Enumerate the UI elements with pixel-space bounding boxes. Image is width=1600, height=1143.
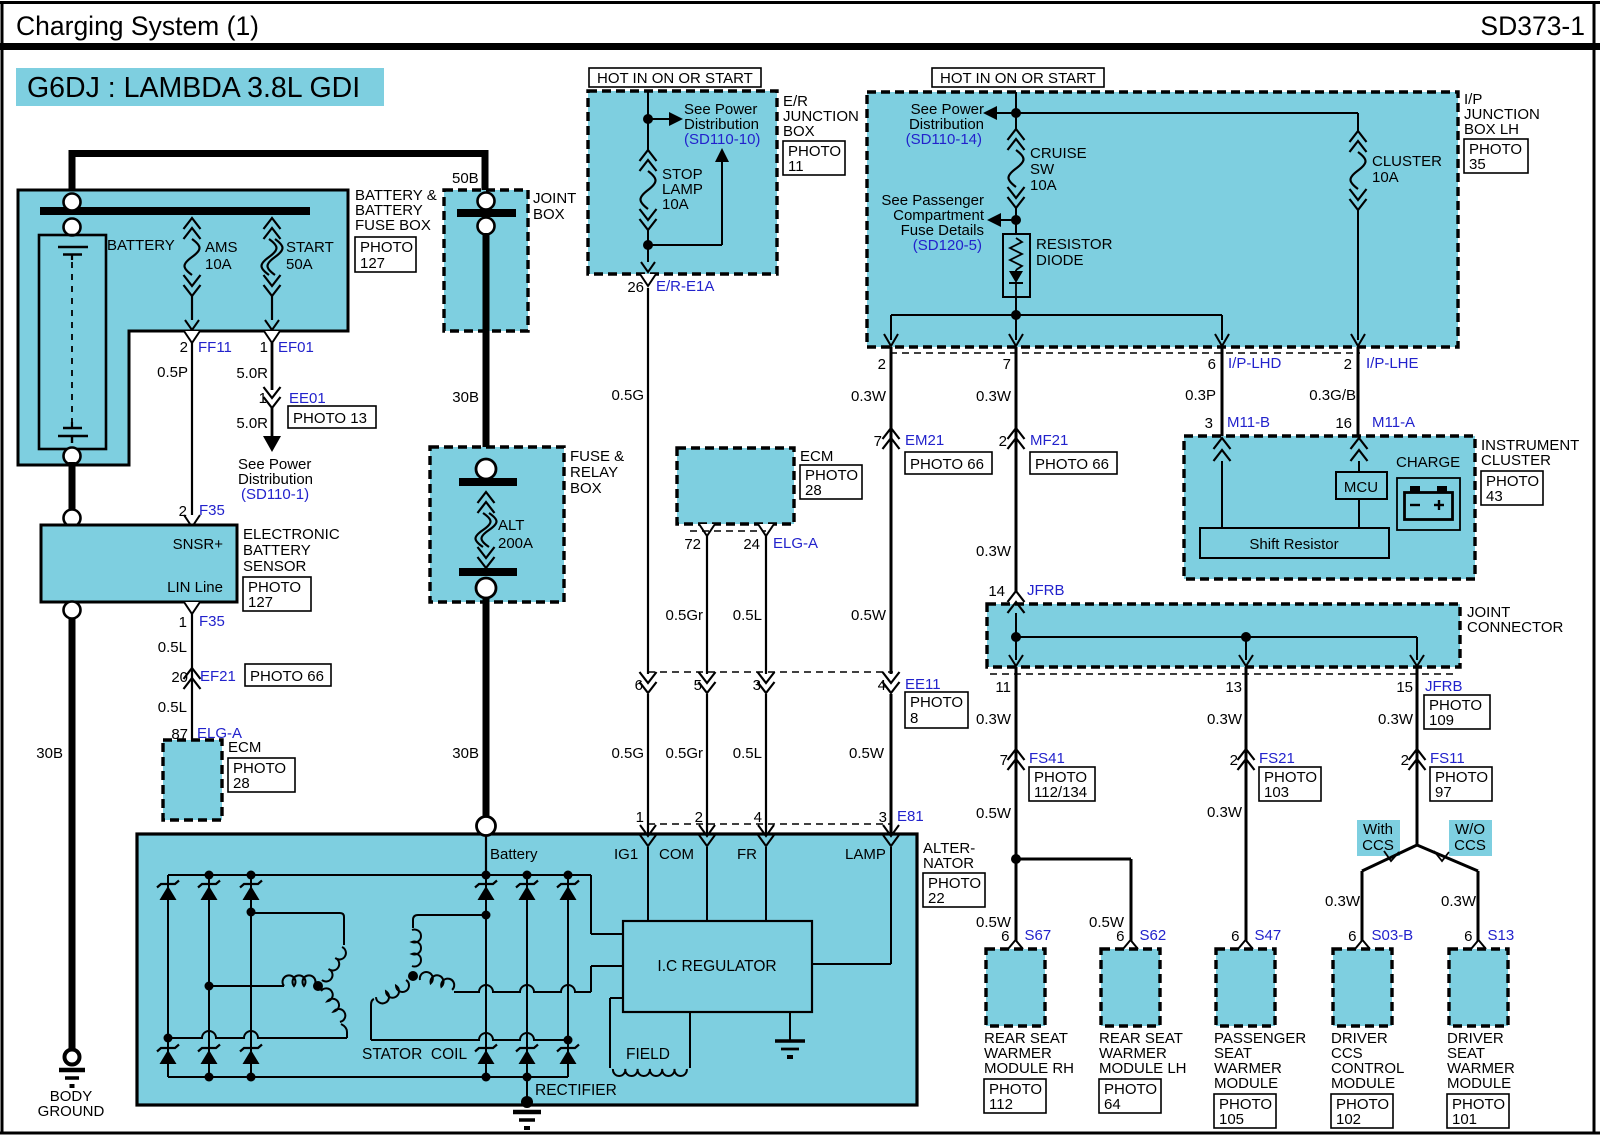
svg-text:S62: S62: [1140, 927, 1167, 944]
svg-text:105: 105: [1219, 1111, 1244, 1128]
module S62: [1101, 949, 1160, 1026]
svg-text:0.3W: 0.3W: [976, 543, 1012, 560]
svg-text:6: 6: [1231, 928, 1239, 945]
wire 0.5Gr: [706, 536, 708, 674]
svg-text:FS21: FS21: [1259, 750, 1295, 767]
svg-text:CCS: CCS: [1362, 837, 1394, 854]
svg-text:0.5Gr: 0.5Gr: [665, 745, 703, 762]
svg-text:64: 64: [1104, 1096, 1121, 1113]
wire 0.5G: [647, 288, 649, 674]
bus bar in battery fuse box: [40, 207, 310, 215]
svg-text:BATTERY: BATTERY: [243, 542, 311, 559]
fuse & relay box: [430, 447, 564, 602]
connector line E81: [648, 823, 891, 825]
svg-text:CCS: CCS: [1454, 837, 1486, 854]
svg-text:Shift Resistor: Shift Resistor: [1249, 536, 1338, 553]
connector pin 6 S62: [1123, 940, 1138, 949]
field coil: [610, 997, 623, 999]
svg-text:0.5L: 0.5L: [158, 699, 187, 716]
page border frame: [0, 1, 1600, 4]
svg-text:LAMP: LAMP: [845, 846, 886, 863]
svg-text:SENSOR: SENSOR: [243, 558, 307, 575]
in-line connector 2 FS21: [1238, 749, 1255, 760]
stator coil 2: [408, 971, 418, 981]
connector pin 14 JFRB: [1008, 591, 1025, 602]
svg-text:(SD110-1): (SD110-1): [241, 486, 309, 503]
svg-text:10A: 10A: [1372, 169, 1399, 186]
svg-text:PHOTO: PHOTO: [360, 239, 413, 256]
svg-text:30B: 30B: [452, 389, 479, 406]
IC regulator: [623, 921, 812, 1012]
option labels With CCS / W/O CCS: [1357, 820, 1400, 856]
in-line connector 7 FS41: [1008, 749, 1025, 760]
svg-text:6: 6: [1116, 928, 1124, 945]
photo ref 28: [228, 758, 295, 792]
svg-text:E81: E81: [897, 808, 924, 825]
svg-text:8: 8: [910, 710, 918, 727]
svg-text:1: 1: [636, 809, 644, 826]
wire battery pin to bus: [485, 835, 487, 875]
svg-text:MODULE: MODULE: [1447, 1075, 1511, 1092]
svg-text:6: 6: [635, 677, 643, 694]
photo ref 8: [905, 692, 968, 728]
svg-text:0.3W: 0.3W: [851, 388, 887, 405]
svg-text:0.3W: 0.3W: [1207, 804, 1243, 821]
svg-text:I/P-LHD: I/P-LHD: [1228, 355, 1282, 372]
svg-text:SD373-1: SD373-1: [1480, 11, 1585, 41]
svg-text:FF11: FF11: [198, 339, 232, 356]
in-line connector 1 EE01: [264, 387, 281, 398]
photo ref 103: [1259, 767, 1321, 801]
rectifier bottom bus: [168, 1076, 568, 1078]
svg-text:15: 15: [1396, 679, 1413, 696]
wire 0.5W to alternator lamp: [890, 694, 893, 836]
svg-text:START: START: [286, 239, 334, 256]
svg-text:EF01: EF01: [278, 339, 314, 356]
svg-text:STATOR COIL: STATOR COIL: [362, 1046, 467, 1063]
thick wire 30B joint box to fuse & relay box: [483, 233, 490, 462]
svg-text:JFRB: JFRB: [1425, 678, 1463, 695]
svg-text:102: 102: [1336, 1111, 1361, 1128]
battery & battery fuse box outline: [18, 190, 348, 465]
svg-text:ALT: ALT: [498, 517, 524, 534]
svg-text:11: 11: [995, 679, 1011, 696]
svg-text:4: 4: [878, 677, 886, 694]
photo ref 43: [1481, 471, 1543, 505]
connector pin 2 FF11: [184, 331, 200, 343]
connector pin 26 E/R-E1A: [641, 262, 655, 272]
fuse ALT 200A: [478, 492, 495, 503]
terminal ring: [64, 194, 81, 211]
connector pin 6 EE11: [640, 672, 657, 683]
wire 0.3P: [1221, 347, 1224, 440]
junction nodes right rectifier: [482, 911, 491, 920]
svg-text:200A: 200A: [498, 535, 533, 552]
svg-text:FUSE BOX: FUSE BOX: [355, 217, 431, 234]
svg-text:0.5W: 0.5W: [976, 805, 1012, 822]
wire 5.0R: [271, 343, 274, 390]
label HOT IN ON OR START: [932, 68, 1104, 87]
svg-text:43: 43: [1486, 488, 1503, 505]
svg-text:22: 22: [928, 890, 945, 907]
svg-text:26: 26: [627, 279, 644, 296]
MCU: [1336, 472, 1387, 499]
svg-text:3: 3: [1205, 415, 1213, 432]
svg-text:IG1: IG1: [614, 846, 638, 863]
wire 5.0R to power distribution: [271, 408, 274, 438]
photo ref 22: [923, 873, 985, 907]
svg-text:10A: 10A: [1030, 177, 1057, 194]
svg-text:0.3W: 0.3W: [976, 711, 1012, 728]
connector pin 6 S03-B: [1355, 940, 1370, 949]
svg-text:101: 101: [1452, 1111, 1477, 1128]
svg-text:7: 7: [1003, 356, 1011, 373]
fuse AMS 10A: [184, 218, 201, 229]
shift resistor: [1200, 528, 1389, 558]
svg-text:0.3W: 0.3W: [976, 388, 1012, 405]
svg-text:50A: 50A: [286, 256, 313, 273]
svg-text:(SD110-14): (SD110-14): [906, 131, 982, 148]
photo ref 66: [1030, 452, 1117, 474]
connector row EE11: [648, 671, 893, 673]
connector pin 4 EE11: [883, 672, 900, 683]
photo ref 112/134: [1029, 767, 1095, 801]
svg-text:CONNECTOR: CONNECTOR: [1467, 619, 1564, 636]
svg-text:BOX LH: BOX LH: [1464, 121, 1519, 138]
svg-text:COM: COM: [659, 846, 694, 863]
svg-text:S67: S67: [1025, 927, 1052, 944]
fuse STOP LAMP 10A: [640, 150, 657, 161]
svg-text:M11-B: M11-B: [1227, 414, 1270, 431]
connector pin 2 F35: [184, 515, 200, 527]
connector pin 16 M11-A: [1351, 438, 1368, 449]
svg-text:HOT IN ON OR START: HOT IN ON OR START: [940, 70, 1096, 87]
svg-text:5.0R: 5.0R: [236, 365, 268, 382]
svg-text:FR: FR: [737, 846, 757, 863]
joint box: [444, 190, 528, 331]
ECM (middle): [677, 448, 794, 524]
svg-text:112/134: 112/134: [1034, 784, 1087, 801]
svg-text:PHOTO 66: PHOTO 66: [250, 668, 324, 685]
connector pin 6 S47: [1238, 940, 1253, 949]
regulator input wires: [647, 847, 649, 921]
svg-text:0.3G/B: 0.3G/B: [1309, 387, 1356, 404]
svg-text:BOX: BOX: [570, 480, 602, 497]
in-line connector 2 FS11: [1409, 749, 1426, 760]
svg-text:ELECTRONIC: ELECTRONIC: [243, 526, 340, 543]
junction node and bottom feeds: [1015, 297, 1017, 340]
connector pin 6 S13: [1471, 940, 1486, 949]
svg-text:6: 6: [1348, 928, 1356, 945]
svg-text:2: 2: [878, 356, 886, 373]
svg-text:1: 1: [260, 339, 268, 356]
svg-text:EF21: EF21: [200, 668, 236, 685]
svg-text:BATTERY: BATTERY: [107, 237, 175, 254]
svg-text:2: 2: [179, 503, 187, 520]
svg-text:7: 7: [874, 433, 882, 450]
junction node: [643, 114, 653, 124]
svg-text:7: 7: [1000, 752, 1008, 769]
svg-text:6: 6: [1001, 928, 1009, 945]
svg-text:0.5L: 0.5L: [733, 607, 762, 624]
photo ref 64: [1099, 1079, 1161, 1113]
svg-text:103: 103: [1264, 784, 1289, 801]
svg-text:W/O: W/O: [1455, 821, 1485, 838]
svg-text:CRUISE: CRUISE: [1030, 145, 1087, 162]
svg-text:NATOR: NATOR: [923, 855, 974, 872]
svg-text:0.3W: 0.3W: [1378, 711, 1414, 728]
svg-text:Charging System (1): Charging System (1): [16, 11, 259, 41]
wire into box: [647, 91, 649, 150]
svg-text:MODULE: MODULE: [1331, 1075, 1395, 1092]
svg-text:50B: 50B: [452, 170, 479, 187]
svg-text:CHARGE: CHARGE: [1396, 454, 1460, 471]
svg-text:0.3P: 0.3P: [1185, 387, 1216, 404]
svg-text:0.3W: 0.3W: [1207, 711, 1243, 728]
photo ref 66: [245, 664, 331, 686]
svg-text:10A: 10A: [662, 196, 689, 213]
photo ref 127: [355, 237, 416, 272]
arrow to see power distribution: [648, 118, 669, 120]
svg-text:3: 3: [879, 809, 887, 826]
svg-text:28: 28: [805, 482, 822, 499]
svg-text:FS41: FS41: [1029, 750, 1065, 767]
svg-text:I/P-LHE: I/P-LHE: [1366, 355, 1419, 372]
svg-text:S03-B: S03-B: [1372, 927, 1414, 944]
svg-text:14: 14: [988, 583, 1005, 600]
svg-text:20: 20: [171, 669, 188, 686]
svg-text:5: 5: [694, 677, 702, 694]
svg-text:JOINT: JOINT: [533, 190, 576, 207]
svg-text:AMS: AMS: [205, 239, 238, 256]
alternator box: [137, 834, 917, 1105]
thick wire battery to sensor: [69, 462, 76, 515]
svg-text:3: 3: [753, 677, 761, 694]
svg-text:G6DJ : LAMBDA 3.8L GDI: G6DJ : LAMBDA 3.8L GDI: [27, 72, 360, 104]
thick wire 30B to body ground: [69, 618, 76, 1049]
svg-text:30B: 30B: [452, 745, 479, 762]
svg-text:EE01: EE01: [289, 390, 326, 407]
connector pin 3 EE11: [758, 672, 775, 683]
wire 0.5L: [191, 614, 193, 740]
svg-text:(SD120-5): (SD120-5): [913, 237, 982, 254]
svg-text:6: 6: [1208, 356, 1216, 373]
svg-text:MF21: MF21: [1030, 432, 1068, 449]
branch node to S62: [1011, 854, 1021, 864]
svg-text:With: With: [1363, 821, 1393, 838]
svg-text:FS11: FS11: [1430, 750, 1465, 767]
svg-text:16: 16: [1335, 415, 1352, 432]
charge battery icon: [1397, 478, 1460, 530]
wire 0.3W: [1015, 347, 1018, 592]
svg-text:MODULE: MODULE: [1214, 1075, 1278, 1092]
svg-text:0.5W: 0.5W: [851, 607, 887, 624]
svg-text:24: 24: [743, 536, 760, 553]
svg-text:112: 112: [989, 1096, 1013, 1113]
svg-text:35: 35: [1469, 156, 1486, 173]
photo ref 13: [288, 406, 376, 428]
svg-text:72: 72: [684, 536, 701, 553]
electronic battery sensor U: [41, 525, 237, 602]
photo ref 35: [1464, 139, 1528, 173]
svg-text:BOX: BOX: [533, 206, 565, 223]
svg-text:0.5W: 0.5W: [849, 745, 885, 762]
arrow to see passenger compartment fuse details: [1001, 219, 1016, 221]
rectifier diodes bottom row: [157, 1045, 179, 1052]
svg-text:2: 2: [1401, 752, 1409, 769]
svg-text:97: 97: [1435, 784, 1452, 801]
svg-text:PHOTO 66: PHOTO 66: [910, 456, 984, 473]
svg-text:13: 13: [1225, 679, 1242, 696]
module S47: [1216, 949, 1275, 1026]
fuse START 50A: [264, 218, 281, 229]
svg-text:2: 2: [180, 339, 188, 356]
svg-text:PHOTO 66: PHOTO 66: [1035, 456, 1109, 473]
svg-text:6: 6: [1464, 928, 1472, 945]
fuse CRUISE SW 10A: [1008, 129, 1025, 140]
E/R junction box: [588, 91, 777, 274]
svg-text:0.5L: 0.5L: [158, 639, 187, 656]
svg-text:11: 11: [788, 158, 804, 175]
svg-text:0.5G: 0.5G: [611, 387, 644, 404]
photo ref 102: [1331, 1094, 1393, 1128]
svg-text:0.5L: 0.5L: [733, 745, 762, 762]
svg-text:2: 2: [1344, 356, 1352, 373]
photo ref 109: [1424, 695, 1490, 729]
module S67: [986, 949, 1045, 1026]
stator bus lower-left with hops: [168, 1031, 347, 1038]
svg-text:I.C REGULATOR: I.C REGULATOR: [657, 958, 776, 975]
body ground: [65, 1050, 80, 1065]
svg-text:MODULE LH: MODULE LH: [1099, 1060, 1187, 1077]
wire 0.3W: [890, 347, 893, 674]
rectifier top bus: [168, 874, 591, 876]
svg-text:HOT IN ON OR START: HOT IN ON OR START: [597, 70, 753, 87]
svg-text:0.5G: 0.5G: [611, 745, 644, 762]
module S03-B: [1333, 949, 1392, 1026]
svg-text:1: 1: [179, 614, 187, 631]
svg-text:30B: 30B: [36, 745, 63, 762]
connector pin 3 M11-B: [1214, 438, 1231, 449]
svg-text:F35: F35: [199, 502, 225, 519]
svg-text:4: 4: [754, 809, 762, 826]
terminal ring below sensor: [64, 602, 81, 619]
svg-text:0.5P: 0.5P: [157, 364, 188, 381]
in-line connector 20 EF21: [184, 668, 201, 679]
alternator pin chevrons: [640, 835, 656, 846]
wire: thick feed bus from battery to joint box: [69, 157, 76, 191]
svg-text:GROUND: GROUND: [38, 1103, 105, 1120]
ECM (left): [184, 740, 200, 752]
svg-text:0.3W: 0.3W: [1441, 893, 1477, 910]
svg-text:0.5Gr: 0.5Gr: [665, 607, 703, 624]
wires inside cluster: [1221, 461, 1223, 528]
svg-text:RECTIFIER: RECTIFIER: [535, 1082, 617, 1099]
svg-text:(SD110-10): (SD110-10): [684, 131, 760, 148]
wire 0.5P: [191, 343, 193, 516]
wire 0.3W: [1416, 667, 1419, 845]
svg-text:S47: S47: [1255, 927, 1282, 944]
svg-text:ECM: ECM: [800, 448, 833, 465]
svg-text:127: 127: [360, 255, 385, 272]
option split wires: [1362, 845, 1417, 871]
connector pins 72 / 24 ELG-A: [699, 524, 715, 536]
svg-text:S13: S13: [1488, 927, 1515, 944]
photo ref 112: [984, 1079, 1046, 1113]
svg-text:RESISTOR: RESISTOR: [1036, 236, 1113, 253]
resistor diode: [1003, 234, 1030, 297]
svg-text:2: 2: [999, 433, 1007, 450]
svg-text:EM21: EM21: [905, 432, 944, 449]
wires to alternator: [647, 694, 649, 836]
svg-text:F35: F35: [199, 613, 225, 630]
connector pin 6 S67: [1008, 940, 1023, 949]
svg-text:DIODE: DIODE: [1036, 252, 1084, 269]
svg-text:MCU: MCU: [1344, 479, 1378, 496]
photo ref 105: [1214, 1094, 1276, 1128]
alternator ground: [526, 1077, 528, 1103]
arrow to see power distribution: [997, 112, 1016, 114]
in-line connector 7 EM21: [883, 428, 900, 439]
terminal ring: [64, 219, 81, 236]
module S13: [1449, 949, 1508, 1026]
rectifier diodes top row: [157, 881, 179, 888]
instrument cluster: [1184, 436, 1475, 579]
wire with up arrow: [648, 244, 722, 246]
svg-text:FUSE &: FUSE &: [570, 448, 624, 465]
wire into box: [1015, 92, 1017, 129]
I/P junction box LH: [867, 92, 1458, 347]
svg-text:0.3W: 0.3W: [1325, 893, 1361, 910]
svg-text:PHOTO 13: PHOTO 13: [293, 410, 367, 427]
svg-text:109: 109: [1429, 712, 1454, 729]
wire 0.3W: [1245, 667, 1248, 941]
svg-text:E/R-E1A: E/R-E1A: [656, 278, 714, 295]
box exit arrows: [884, 334, 898, 346]
battery BATTERY: [39, 235, 106, 449]
svg-text:10A: 10A: [205, 256, 232, 273]
photo ref 101: [1447, 1094, 1509, 1128]
thick wire 30B to alternator: [483, 598, 490, 820]
junction node: [1015, 208, 1017, 234]
photo ref 66: [905, 452, 992, 474]
junction node: [647, 230, 649, 262]
photo ref 97: [1430, 767, 1492, 801]
rectifier column wires: [167, 875, 169, 1077]
svg-text:EE11: EE11: [905, 676, 941, 693]
svg-text:ELG-A: ELG-A: [773, 535, 818, 552]
svg-text:FIELD: FIELD: [626, 1046, 670, 1063]
svg-text:BOX: BOX: [783, 123, 815, 140]
connector line below joint connector: [990, 673, 1458, 675]
wire 0.5L: [765, 536, 767, 674]
svg-text:1: 1: [259, 390, 267, 407]
connector pin 5 EE11: [699, 672, 716, 683]
wire 0.3G/B: [1357, 347, 1360, 440]
engine variant label G6DJ: [16, 68, 384, 106]
svg-text:127: 127: [248, 594, 273, 611]
wires inside joint connector: [1015, 613, 1017, 660]
svg-text:5.0R: 5.0R: [236, 415, 268, 432]
wire 0.3W: [1015, 667, 1018, 941]
svg-text:2: 2: [1230, 752, 1238, 769]
svg-text:CLUSTER: CLUSTER: [1372, 153, 1442, 170]
svg-text:M11-A: M11-A: [1372, 414, 1415, 431]
terminal ring at battery box bottom: [64, 448, 81, 465]
stator coil 1: [313, 981, 323, 991]
svg-text:ECM: ECM: [228, 739, 261, 756]
label HOT IN ON OR START: [589, 68, 761, 87]
